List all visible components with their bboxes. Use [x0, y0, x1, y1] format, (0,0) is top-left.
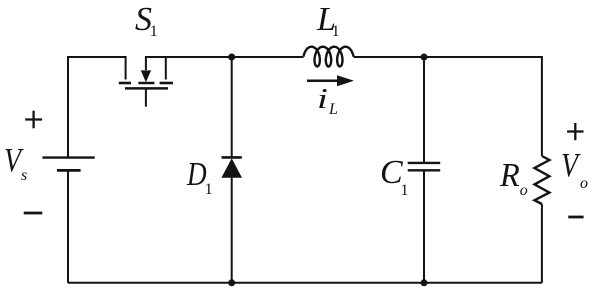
resistor Ro zigzag	[535, 156, 550, 204]
drain bar	[160, 82, 173, 85]
label D1	[187, 158, 207, 192]
capacitor C1 plates	[408, 163, 441, 170]
minus sign left	[24, 212, 43, 215]
wire bottom	[68, 282, 542, 284]
gate lead	[145, 89, 147, 107]
label Vs	[4, 144, 21, 178]
wire capacitor branch	[423, 57, 425, 163]
body bar	[138, 82, 154, 85]
wire left-bottom: battery to bottom	[67, 171, 69, 283]
junction node dots	[228, 54, 235, 61]
plus sign left	[25, 111, 42, 129]
label Ro	[500, 159, 520, 193]
long plate	[42, 156, 94, 158]
wire top-left: Vs top to MOSFET source lead	[68, 57, 126, 157]
gate plate	[125, 87, 168, 90]
plus sign right	[567, 123, 583, 140]
anode triangle	[221, 158, 242, 177]
diode D1	[221, 157, 242, 177]
source bar	[119, 82, 131, 85]
wire top-middle: MOSFET drain side to inductor start	[146, 57, 304, 70]
minus sign right	[568, 216, 583, 219]
short plate	[57, 169, 81, 172]
wire diode branch	[231, 57, 233, 157]
wire right-bottom: resistor to bottom wire	[541, 204, 543, 283]
current arrow iL	[307, 75, 354, 86]
battery Vs plates	[42, 158, 94, 171]
cathode bar	[222, 156, 242, 159]
transistor S1 (MOSFET switch)	[119, 57, 173, 107]
label Vo	[561, 149, 578, 183]
label iL	[317, 86, 328, 114]
inductor L1 coil	[304, 47, 354, 67]
label L1	[317, 3, 336, 37]
body arrow	[141, 70, 151, 82]
wire top-right: inductor end to right corner down to resistor	[354, 57, 542, 156]
label S1	[135, 3, 152, 37]
drain lead	[165, 57, 167, 80]
label C1	[380, 156, 403, 190]
